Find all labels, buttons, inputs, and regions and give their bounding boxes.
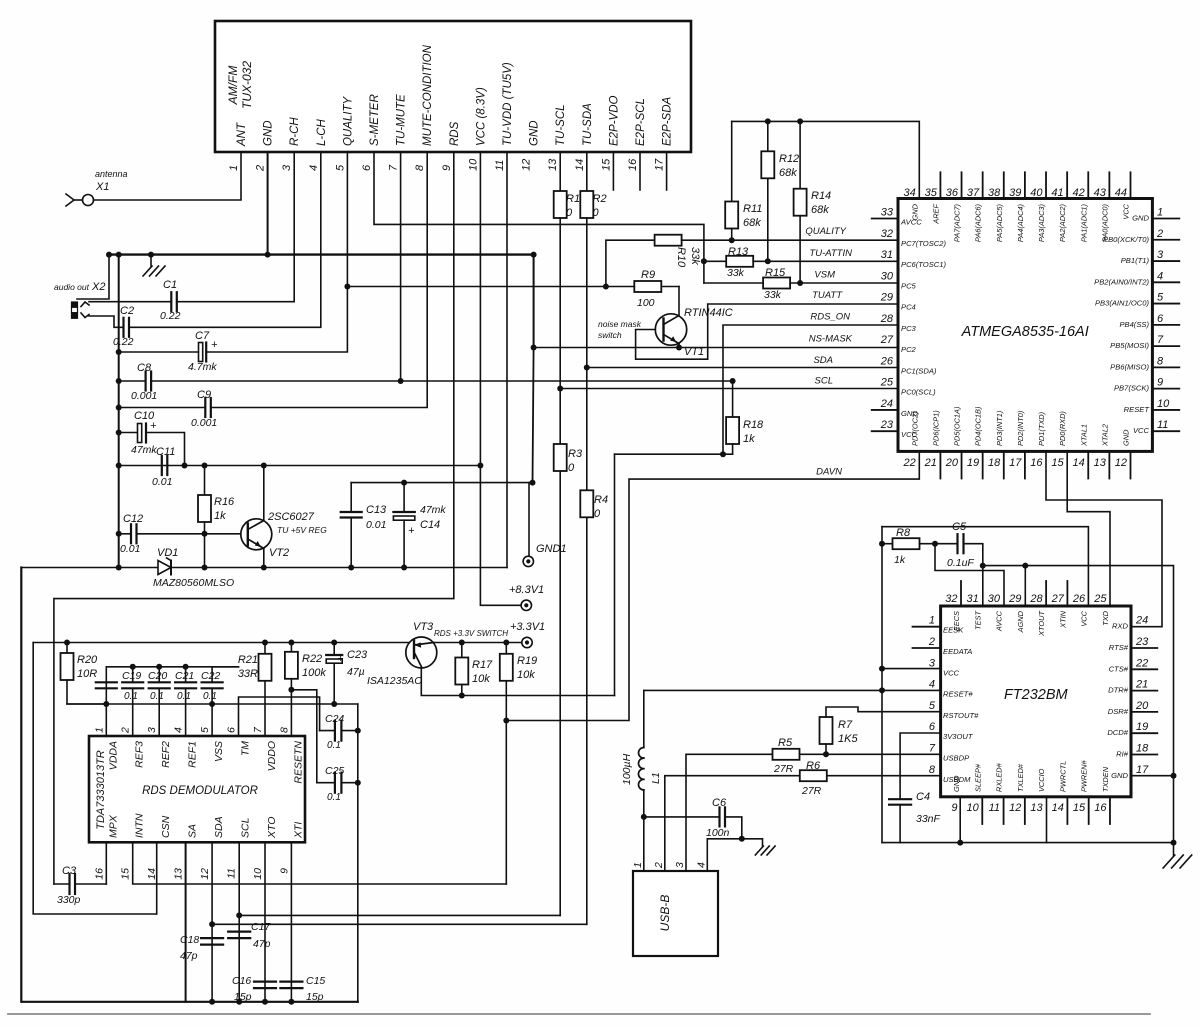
svg-text:12: 12 bbox=[1009, 802, 1021, 814]
svg-text:AVCC: AVCC bbox=[995, 610, 1004, 632]
svg-text:R6: R6 bbox=[806, 760, 821, 772]
capacitor C10 electrolytic bbox=[131, 410, 157, 456]
wire R10 to ATMEGA pin 32 bbox=[682, 226, 898, 240]
svg-text:R7: R7 bbox=[838, 719, 853, 731]
svg-text:ATMEGA8535-16AI: ATMEGA8535-16AI bbox=[961, 324, 1089, 340]
svg-text:VCC: VCC bbox=[943, 668, 960, 677]
junction TU-MUTE line / TUX pin 7 bbox=[398, 378, 404, 384]
svg-text:R13: R13 bbox=[728, 246, 749, 258]
svg-text:47p: 47p bbox=[180, 950, 198, 962]
svg-text:10: 10 bbox=[467, 158, 479, 171]
svg-text:DSR#: DSR# bbox=[1108, 707, 1129, 716]
wire VT3 collector rail to +3.3V1 bbox=[434, 642, 522, 644]
ATMEGA right pin labels/numbers bbox=[1094, 207, 1170, 436]
chassis ground symbol near rail bbox=[143, 255, 165, 276]
junction top rail / TUX pin12 leg bbox=[530, 480, 536, 486]
svg-text:PB3(AIN1/OC0): PB3(AIN1/OC0) bbox=[1095, 299, 1149, 308]
svg-text:R12: R12 bbox=[779, 153, 799, 165]
inductor L1 100uH bbox=[621, 690, 662, 817]
FT232 pin 27 stub bbox=[1066, 581, 1068, 606]
wire VT1 base loop to ATMEGA pin 29 TUATT bbox=[636, 290, 898, 359]
wire R9 to VT1 collector bbox=[678, 287, 680, 315]
TUX pin 15 stub bbox=[612, 152, 614, 190]
wire FT gnd rail bbox=[882, 842, 1174, 844]
antenna connector X1 bbox=[66, 169, 128, 206]
wire FT pin 13 VCCIO bbox=[1046, 797, 1048, 843]
capacitor C17 bbox=[228, 921, 271, 950]
svg-text:19: 19 bbox=[967, 457, 979, 469]
junction bottom rail bbox=[288, 999, 294, 1005]
svg-text:R21: R21 bbox=[238, 654, 258, 666]
svg-text:TDA7333013TR: TDA7333013TR bbox=[95, 750, 107, 830]
junction VSS rail / RDS pin 5 bbox=[209, 701, 215, 707]
svg-text:AVCC: AVCC bbox=[900, 218, 922, 227]
svg-text:PWRCTL: PWRCTL bbox=[1058, 761, 1067, 792]
FT232 bottom pin labels/numbers bbox=[951, 759, 1110, 814]
capacitor C22 bbox=[201, 667, 239, 704]
wire RDS pin 9 XTI down bbox=[290, 842, 292, 1002]
svg-text:R15: R15 bbox=[765, 267, 786, 279]
svg-text:44: 44 bbox=[1115, 187, 1127, 199]
wire R13 to ATMEGA pin 31 TU-ATTIN bbox=[768, 248, 898, 261]
svg-text:38: 38 bbox=[988, 187, 1001, 199]
svg-text:3: 3 bbox=[281, 164, 293, 171]
svg-text:C25: C25 bbox=[325, 765, 344, 777]
wire cap bank top rail bbox=[106, 667, 238, 704]
ATMEGA right pin stubs 1-11 bbox=[1152, 219, 1179, 432]
junction SDA / TUX pin 14 line bbox=[584, 365, 590, 371]
wire FT pin 4 RESET# line bbox=[644, 689, 941, 691]
svg-text:9: 9 bbox=[1157, 377, 1163, 389]
wire X2 ring to C2 bbox=[89, 316, 124, 327]
wire left bus to C10 bbox=[119, 432, 138, 434]
svg-text:GND: GND bbox=[529, 120, 541, 146]
svg-text:33k: 33k bbox=[764, 289, 782, 301]
svg-text:XTAL1: XTAL1 bbox=[1079, 424, 1088, 447]
wire TUX pin 9 RDS bbox=[54, 152, 454, 884]
junction C11 rail / R16 bbox=[202, 463, 208, 469]
capacitor C12 bbox=[120, 513, 143, 555]
junction SCL / TUX pin 13 line bbox=[557, 386, 563, 392]
svg-text:10: 10 bbox=[252, 868, 264, 880]
wire RDS pin 14 CSN down bbox=[156, 842, 158, 914]
svg-text:ISA1235AC: ISA1235AC bbox=[367, 675, 422, 687]
wire R15 to ATMEGA pin 30 VSM bbox=[790, 270, 898, 284]
svg-text:RESET: RESET bbox=[1124, 405, 1151, 414]
capacitor C14 electrolytic bbox=[393, 483, 446, 568]
svg-text:0.22: 0.22 bbox=[113, 336, 134, 348]
wire RDS pin1 to box bbox=[105, 704, 107, 736]
svg-text:R5: R5 bbox=[778, 737, 793, 749]
svg-text:PC2: PC2 bbox=[901, 345, 917, 354]
svg-text:27R: 27R bbox=[801, 785, 822, 797]
wire C1 to TUX pin 3 bbox=[177, 152, 294, 302]
junction RDS_ON vertical bbox=[720, 451, 726, 457]
svg-text:0.1: 0.1 bbox=[150, 691, 164, 702]
svg-text:12: 12 bbox=[1115, 457, 1127, 469]
junction VD1 line / left bus bbox=[116, 565, 122, 571]
FT232 right pin stubs 23-18 bbox=[1131, 648, 1157, 755]
junction C25 / gnd leg bbox=[355, 780, 361, 786]
svg-text:VCCIO: VCCIO bbox=[1037, 768, 1046, 792]
wire rail leg to CSN line bbox=[33, 643, 157, 915]
capacitor C11 bbox=[152, 446, 175, 488]
svg-text:VCC: VCC bbox=[901, 430, 918, 439]
svg-text:6: 6 bbox=[225, 727, 237, 733]
svg-text:RXD: RXD bbox=[1112, 622, 1129, 631]
svg-text:PA1(ADC1): PA1(ADC1) bbox=[1079, 203, 1088, 242]
svg-text:68k: 68k bbox=[811, 204, 829, 216]
junction left bus bbox=[116, 349, 122, 355]
tuner block TUX-032 bbox=[215, 21, 691, 152]
svg-text:C24: C24 bbox=[325, 713, 344, 725]
svg-text:13: 13 bbox=[1094, 457, 1107, 469]
FT232 pin 2 EEDATA stub bbox=[913, 647, 941, 649]
junction top rail / R12 bbox=[765, 118, 771, 124]
wire ATMEGA pin 28 RDS_ON bbox=[723, 312, 898, 455]
svg-text:C2: C2 bbox=[120, 305, 134, 317]
svg-text:C12: C12 bbox=[123, 513, 143, 525]
svg-text:37: 37 bbox=[967, 187, 980, 199]
svg-text:R9: R9 bbox=[641, 269, 655, 281]
resistor R18 bbox=[726, 381, 764, 454]
wire VT3 emitter rail bbox=[421, 667, 614, 696]
svg-text:VCC (8.3V): VCC (8.3V) bbox=[475, 87, 487, 146]
wire RDS_ON net line bbox=[615, 453, 733, 455]
svg-text:34: 34 bbox=[904, 187, 916, 199]
junction rail / R22 bbox=[288, 640, 294, 646]
svg-text:L1: L1 bbox=[650, 772, 662, 784]
junction R19 / DAVN bbox=[503, 718, 509, 724]
X2 shield wire to ground rail bbox=[77, 255, 109, 299]
capacitor C6 bbox=[644, 797, 730, 839]
svg-text:12: 12 bbox=[199, 868, 211, 880]
svg-text:PC7(TOSC2): PC7(TOSC2) bbox=[901, 239, 946, 248]
svg-text:31: 31 bbox=[967, 593, 979, 605]
svg-text:8: 8 bbox=[414, 164, 426, 171]
svg-text:S-METER: S-METER bbox=[369, 94, 381, 146]
svg-text:7: 7 bbox=[929, 743, 936, 755]
svg-text:100µH: 100µH bbox=[621, 753, 633, 785]
svg-text:1K5: 1K5 bbox=[838, 733, 858, 745]
svg-text:2: 2 bbox=[928, 636, 935, 648]
wire FT pin 9 GND bbox=[959, 797, 961, 843]
svg-text:15: 15 bbox=[1051, 457, 1064, 469]
svg-text:24: 24 bbox=[1135, 615, 1148, 627]
svg-text:47p: 47p bbox=[253, 938, 271, 950]
svg-text:100k: 100k bbox=[302, 667, 326, 679]
TUX pin 12 lower leg bbox=[533, 255, 534, 483]
ATMEGA pin 24 GND stub bbox=[872, 409, 898, 411]
svg-text:REF3: REF3 bbox=[134, 741, 146, 768]
svg-text:MPX: MPX bbox=[107, 814, 119, 838]
svg-text:USBDP: USBDP bbox=[943, 754, 970, 763]
svg-text:0.001: 0.001 bbox=[131, 390, 157, 402]
junction left bus bbox=[116, 405, 122, 411]
connector USB-B body bbox=[633, 871, 718, 956]
svg-text:C6: C6 bbox=[712, 797, 727, 809]
resistor R11 bbox=[725, 121, 762, 240]
svg-text:0.01: 0.01 bbox=[152, 476, 172, 488]
wire C8 to R18 top bbox=[151, 380, 733, 382]
svg-text:3: 3 bbox=[674, 862, 686, 868]
svg-text:23: 23 bbox=[880, 419, 894, 431]
svg-text:2: 2 bbox=[653, 862, 665, 869]
wire C7 to TUX pin 5 bbox=[206, 152, 347, 352]
wire ATMEGA pin16 TXD to FT pin24 RXD bbox=[1046, 451, 1162, 626]
svg-text:17: 17 bbox=[654, 158, 666, 171]
svg-text:TUX-032: TUX-032 bbox=[240, 61, 254, 109]
svg-text:8: 8 bbox=[1157, 355, 1164, 367]
svg-text:0.001: 0.001 bbox=[191, 417, 217, 429]
terminal +3.3V1 bbox=[510, 621, 545, 648]
svg-text:2SC6027: 2SC6027 bbox=[267, 511, 315, 523]
svg-text:20: 20 bbox=[945, 457, 959, 469]
junction R14 / VSM line bbox=[797, 280, 803, 286]
svg-text:TU-SCL: TU-SCL bbox=[555, 104, 567, 146]
svg-text:TU-SDA: TU-SDA bbox=[582, 103, 594, 146]
ATMEGA bottom pin stubs bbox=[940, 451, 1130, 478]
svg-text:8: 8 bbox=[929, 764, 936, 776]
wire C9 to TUX pin 8 bbox=[211, 152, 427, 408]
svg-text:R4: R4 bbox=[594, 494, 608, 506]
resistor R7 1K5 bbox=[820, 707, 941, 754]
svg-text:36: 36 bbox=[946, 187, 959, 199]
svg-text:19: 19 bbox=[1136, 721, 1148, 733]
wire left bus to C8 bbox=[119, 380, 146, 382]
FT232 pin 1 EESK stub bbox=[913, 626, 941, 628]
svg-text:35: 35 bbox=[925, 187, 938, 199]
svg-text:14: 14 bbox=[574, 159, 586, 171]
svg-text:11: 11 bbox=[989, 802, 1000, 814]
svg-text:9: 9 bbox=[441, 165, 453, 171]
svg-text:20: 20 bbox=[1135, 700, 1149, 712]
svg-text:26: 26 bbox=[880, 355, 894, 367]
resistor R19 bbox=[500, 643, 537, 721]
capacitor C24 bbox=[320, 713, 358, 751]
svg-text:C19: C19 bbox=[122, 670, 141, 682]
svg-text:PA4(ADC4): PA4(ADC4) bbox=[1016, 203, 1025, 242]
svg-text:PC3: PC3 bbox=[901, 324, 917, 333]
junction R22 RESETN bbox=[288, 687, 294, 693]
svg-text:5: 5 bbox=[199, 727, 211, 733]
wire big left loop bbox=[21, 568, 358, 1002]
wire FT pin 3 VCC stub bbox=[882, 668, 941, 670]
wire VD1 line left bbox=[21, 567, 158, 569]
svg-text:PA7(ADC7): PA7(ADC7) bbox=[953, 203, 962, 242]
svg-text:27: 27 bbox=[1051, 593, 1065, 605]
junction bottom rail bbox=[262, 999, 268, 1005]
svg-text:C1: C1 bbox=[163, 279, 177, 291]
svg-text:6: 6 bbox=[929, 721, 936, 733]
svg-text:TU +5V REG: TU +5V REG bbox=[277, 525, 327, 535]
svg-text:13: 13 bbox=[173, 868, 185, 880]
USB interface U-FT232BM body bbox=[941, 606, 1131, 797]
junction cap bank rail bbox=[156, 664, 162, 670]
svg-text:XTAL2: XTAL2 bbox=[1100, 424, 1109, 447]
svg-text:0.1: 0.1 bbox=[124, 691, 138, 702]
svg-text:audio out: audio out bbox=[54, 282, 90, 292]
capacitor C21 bbox=[175, 667, 196, 736]
junction rail / R20 bbox=[64, 640, 70, 646]
svg-text:C16: C16 bbox=[232, 975, 251, 987]
wire SDA bottom line bbox=[212, 923, 587, 925]
junction gnd rail / FT pin 9 bbox=[957, 840, 963, 846]
svg-text:NS-MASK: NS-MASK bbox=[809, 334, 853, 345]
svg-text:3: 3 bbox=[1157, 249, 1164, 261]
junction gnd rail / TUX pin 2 bbox=[265, 252, 271, 258]
svg-text:TXDEN: TXDEN bbox=[1101, 766, 1110, 792]
svg-text:4: 4 bbox=[929, 679, 935, 691]
wire C5 to FT pin 31 TEST bbox=[964, 544, 983, 606]
svg-text:4: 4 bbox=[173, 727, 185, 733]
left decoupling bus wire bbox=[118, 255, 120, 568]
ATMEGA left pin labels/numbers bbox=[880, 207, 947, 440]
svg-text:0: 0 bbox=[593, 207, 600, 219]
svg-text:39: 39 bbox=[1009, 187, 1021, 199]
wire AGND rail bbox=[983, 566, 1174, 776]
resistor R17 bbox=[455, 643, 493, 696]
svg-text:+: + bbox=[337, 653, 344, 665]
capacitor C25 bbox=[317, 765, 358, 803]
capacitor C23 electrolytic bbox=[326, 643, 368, 705]
RDS demod top pin labels/numbers bbox=[93, 726, 304, 784]
resistor R6 27R bbox=[800, 760, 827, 797]
svg-text:R16: R16 bbox=[214, 496, 235, 508]
svg-text:switch: switch bbox=[598, 330, 622, 340]
svg-text:PC5: PC5 bbox=[901, 281, 917, 290]
resistor R16 bbox=[198, 466, 235, 534]
junction top rail / R14 bbox=[797, 118, 803, 124]
svg-text:DAVN: DAVN bbox=[816, 467, 842, 478]
RDS demodulator U-TDA7333013TR body bbox=[89, 736, 305, 842]
wire R8 net vertical bbox=[881, 527, 883, 843]
wire VD1 to VT2 emitter rail bbox=[171, 567, 507, 569]
TUX-032 pin labels bbox=[236, 44, 674, 147]
svg-text:11: 11 bbox=[1157, 419, 1168, 431]
terminal GND1 bbox=[523, 483, 566, 567]
svg-text:PB4(SS): PB4(SS) bbox=[1119, 320, 1149, 329]
svg-text:PA3(ADC3): PA3(ADC3) bbox=[1037, 203, 1046, 242]
svg-text:SCL: SCL bbox=[815, 375, 833, 386]
svg-text:XTO: XTO bbox=[266, 817, 278, 839]
transistor VT1 RTIN44IC bbox=[598, 307, 733, 358]
junction rail / C23 bbox=[331, 640, 337, 646]
svg-text:41: 41 bbox=[1051, 187, 1063, 199]
junction gnd rail right bbox=[1171, 840, 1177, 846]
svg-text:RXLED#: RXLED# bbox=[995, 762, 1004, 792]
svg-text:11: 11 bbox=[494, 160, 506, 171]
svg-text:GND1: GND1 bbox=[536, 543, 567, 555]
TUX pin 10 wire to +8.3V1 bbox=[480, 152, 521, 605]
svg-text:2: 2 bbox=[1156, 228, 1163, 240]
svg-text:R1: R1 bbox=[566, 193, 580, 205]
svg-text:6: 6 bbox=[361, 164, 373, 171]
junction SCL bottom / RDS pin11 bbox=[236, 912, 242, 918]
svg-text:C22: C22 bbox=[201, 670, 220, 682]
wire divider top rail to ATMEGA pin 34 bbox=[732, 121, 920, 198]
junction R8-left bbox=[879, 541, 885, 547]
svg-text:PA6(ADC6): PA6(ADC6) bbox=[974, 203, 983, 242]
svg-text:DCD#: DCD# bbox=[1107, 728, 1128, 737]
svg-text:VD1: VD1 bbox=[157, 547, 178, 559]
svg-text:VCC: VCC bbox=[1122, 203, 1131, 219]
svg-text:E2P-VDO: E2P-VDO bbox=[608, 95, 620, 146]
junction rail / R21 bbox=[262, 640, 268, 646]
svg-text:21: 21 bbox=[924, 457, 937, 469]
capacitor C3 bbox=[54, 865, 106, 906]
svg-text:10: 10 bbox=[967, 802, 980, 814]
svg-text:C5: C5 bbox=[952, 521, 967, 533]
svg-text:30: 30 bbox=[988, 593, 1001, 605]
junction emitter rail / C13 bbox=[348, 565, 354, 571]
FT232 pin 28 stub bbox=[1045, 581, 1047, 606]
wire +3.3 pullup rail bbox=[33, 642, 410, 644]
svg-text:SA: SA bbox=[187, 824, 199, 838]
svg-text:47mk: 47mk bbox=[131, 444, 157, 456]
svg-text:RDS: RDS bbox=[449, 121, 461, 146]
svg-text:AGND: AGND bbox=[1016, 610, 1025, 633]
svg-text:9: 9 bbox=[951, 802, 957, 814]
junction S-METER leg / R13 bbox=[701, 258, 707, 264]
wire TUX pin 6 S-METER bbox=[374, 152, 704, 283]
resistor R4 bbox=[580, 490, 608, 520]
svg-text:R17: R17 bbox=[472, 659, 493, 671]
svg-text:PD2(INT0): PD2(INT0) bbox=[1016, 410, 1025, 446]
svg-text:9: 9 bbox=[278, 868, 290, 874]
svg-text:24: 24 bbox=[880, 398, 893, 410]
capacitor C5 bbox=[935, 521, 974, 569]
svg-text:RESETN: RESETN bbox=[292, 741, 304, 784]
svg-text:3V3OUT: 3V3OUT bbox=[943, 732, 974, 741]
svg-text:XTI: XTI bbox=[292, 822, 304, 839]
svg-text:R2: R2 bbox=[593, 193, 607, 205]
svg-text:15p: 15p bbox=[306, 991, 324, 1003]
svg-text:17: 17 bbox=[1009, 457, 1022, 469]
svg-text:27: 27 bbox=[880, 334, 894, 346]
wire VCC line to FT pin 26 bbox=[882, 527, 1088, 606]
wire R8-right to FT pin 30 AVCC bbox=[935, 544, 1004, 606]
capacitor on RDS pin 1 bbox=[96, 682, 117, 688]
junction R8-right bbox=[932, 541, 938, 547]
resistor R5 27R bbox=[773, 737, 800, 775]
svg-text:C9: C9 bbox=[197, 389, 211, 401]
capacitor C9 bbox=[191, 389, 217, 429]
resistor R10 bbox=[655, 235, 701, 268]
junction cap bank rail bbox=[183, 664, 189, 670]
svg-text:RDS +3.3V SWITCH: RDS +3.3V SWITCH bbox=[434, 629, 508, 638]
junction C11 rail / TUX pin 10 bbox=[477, 463, 483, 469]
junction left bus bbox=[116, 378, 122, 384]
resistor R13 bbox=[704, 246, 768, 279]
svg-text:0.01: 0.01 bbox=[120, 543, 140, 555]
svg-text:MAZ80560MLSO: MAZ80560MLSO bbox=[153, 577, 234, 589]
wire USB pin 3 to R5 bbox=[686, 754, 773, 871]
FT232 bottom pin stubs 10-12,14-16 bbox=[982, 797, 1110, 824]
junction VD1 line / R16 leg bbox=[202, 565, 208, 571]
wire RDS pin 10 XTO down bbox=[264, 842, 266, 1002]
wire USB pin 1 bbox=[643, 817, 645, 871]
svg-text:10R: 10R bbox=[77, 668, 97, 680]
resistor R14 bbox=[794, 121, 832, 283]
svg-text:18: 18 bbox=[1136, 743, 1149, 755]
capacitor C2 bbox=[113, 305, 134, 348]
junction gnd rail / TUX pin 12 bbox=[531, 252, 537, 258]
svg-text:5: 5 bbox=[929, 700, 936, 712]
junction TEST line / AGND rail bbox=[980, 563, 986, 569]
svg-text:PB1(T1): PB1(T1) bbox=[1121, 256, 1150, 265]
TUX pin 7 stub bbox=[400, 152, 402, 381]
